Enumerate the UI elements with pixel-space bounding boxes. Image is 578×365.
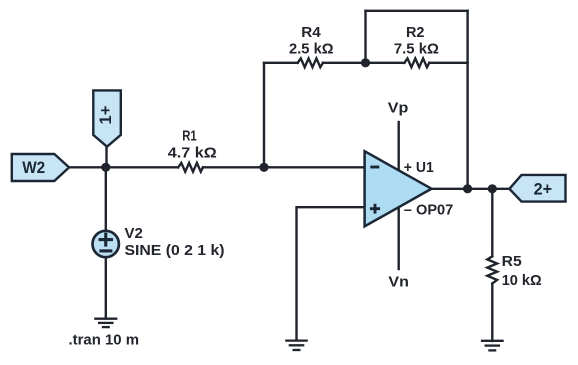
V2 plus symbol (99, 233, 114, 251)
svg-text:Vn: Vn (388, 273, 409, 290)
resistor R2 (404, 58, 429, 67)
ground for R5 (481, 341, 504, 351)
wire output node down to R5 (491, 189, 493, 256)
wire node C up (364, 11, 366, 63)
svg-text:SINE (0 2 1 k): SINE (0 2 1 k) (125, 242, 225, 259)
net tag 2+ (509, 175, 565, 202)
voltage source V2 (93, 231, 119, 257)
svg-text:R2: R2 (406, 24, 425, 41)
svg-text:– OP07: – OP07 (404, 202, 454, 219)
wire corner to R4 (264, 62, 298, 64)
svg-text:Vp: Vp (388, 100, 409, 117)
svg-text:V2: V2 (125, 225, 143, 242)
wire Vp vertical (398, 122, 400, 170)
svg-text:R5: R5 (502, 253, 522, 270)
svg-text:1+: 1+ (97, 106, 115, 125)
wire node A down to V2 (105, 167, 107, 230)
wire node B up to R4 level (263, 63, 265, 168)
svg-text:4.7 kΩ: 4.7 kΩ (168, 145, 217, 162)
wire R1 to op-amp inverting input (203, 166, 365, 168)
wire R4 to node C (323, 62, 366, 64)
svg-text:R4: R4 (301, 24, 321, 41)
resistor R5 (487, 256, 497, 283)
op-amp minus input symbol (370, 166, 379, 169)
wire R2 to feedback vertical (429, 62, 467, 64)
wire node C to R2 (366, 62, 405, 64)
wire R5 to ground (491, 284, 493, 342)
svg-text:W2: W2 (22, 159, 45, 177)
wire op-amp output to tag 2+ (432, 188, 511, 190)
resistor R4 (298, 58, 323, 67)
output node junction at feedback (463, 184, 472, 193)
wire V2 to ground (105, 258, 107, 319)
svg-text:R1: R1 (182, 127, 197, 144)
wire tag 1+ to node A (105, 147, 107, 168)
wire W2 to node A and R1 (67, 166, 178, 168)
wire feedback vertical down to output node (466, 11, 468, 189)
ground for noninverting input (285, 341, 308, 350)
ground for V2 (94, 319, 117, 327)
wire noninverting input left and down to ground (297, 207, 365, 339)
svg-text:+ U1: + U1 (404, 159, 434, 176)
svg-text:2+: 2+ (534, 180, 553, 198)
node C junction (361, 58, 370, 67)
node A junction (101, 163, 110, 172)
resistor R1 (178, 163, 203, 172)
node B junction (259, 163, 268, 172)
svg-text:10 kΩ: 10 kΩ (502, 272, 542, 289)
svg-text:.tran 10 m: .tran 10 m (69, 331, 140, 348)
output node junction at R5 (488, 184, 497, 193)
net tag 1+ (93, 90, 121, 146)
wire Vn vertical (398, 207, 400, 270)
op-amp U1 (365, 151, 432, 226)
op-amp plus input symbol (370, 204, 380, 214)
net tag W2 (12, 154, 69, 181)
svg-text:2.5 kΩ: 2.5 kΩ (289, 41, 334, 58)
svg-text:7.5 kΩ: 7.5 kΩ (394, 41, 439, 58)
wire top feedback horizontal (366, 10, 468, 12)
